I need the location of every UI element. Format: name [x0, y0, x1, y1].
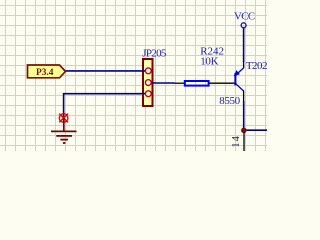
resistor R242 pin 2 — [209, 82, 234, 84]
svg-text:T202: T202 — [246, 60, 267, 72]
svg-text:P3.4: P3.4 — [36, 68, 54, 78]
transistor T202 emitter pin — [243, 61, 245, 68]
wire transistor T202 collector to junction — [243, 101, 245, 130]
wire VCC to transistor T202 emitter — [243, 28, 245, 62]
resistor R242 pin 1 — [175, 82, 185, 84]
port P3.4 — [28, 65, 66, 78]
transistor T202 base bar — [234, 73, 236, 85]
ground — [51, 118, 77, 143]
connector JP205 pin 3 — [145, 91, 151, 97]
transistor T202 collector pin — [243, 91, 245, 102]
svg-text:10K: 10K — [200, 56, 218, 68]
svg-text:JP205: JP205 — [142, 47, 167, 59]
svg-text:8550: 8550 — [219, 95, 240, 107]
transistor T202 collector — [236, 84, 244, 91]
transistor T202 emitter arrow — [234, 68, 244, 76]
wire node P3.4 to JP205 pin 1 — [65, 70, 145, 72]
connector JP205 pin 1 — [145, 68, 151, 74]
pin of off-sheet component — [243, 132, 245, 151]
no-ERC marker — [59, 114, 68, 123]
svg-text:14: 14 — [231, 135, 242, 148]
wire junction to right edge — [244, 129, 267, 131]
resistor R242 body — [185, 81, 209, 86]
wire JP205 pin 2 to resistor R242 — [151, 82, 175, 84]
connector JP205 body — [143, 59, 153, 106]
junction — [241, 128, 247, 134]
power port VCC circle — [241, 23, 246, 28]
svg-text:VCC: VCC — [234, 11, 255, 23]
connector JP205 pin 2 — [145, 80, 151, 86]
wire JP205 pin 3 to ground — [64, 94, 146, 118]
